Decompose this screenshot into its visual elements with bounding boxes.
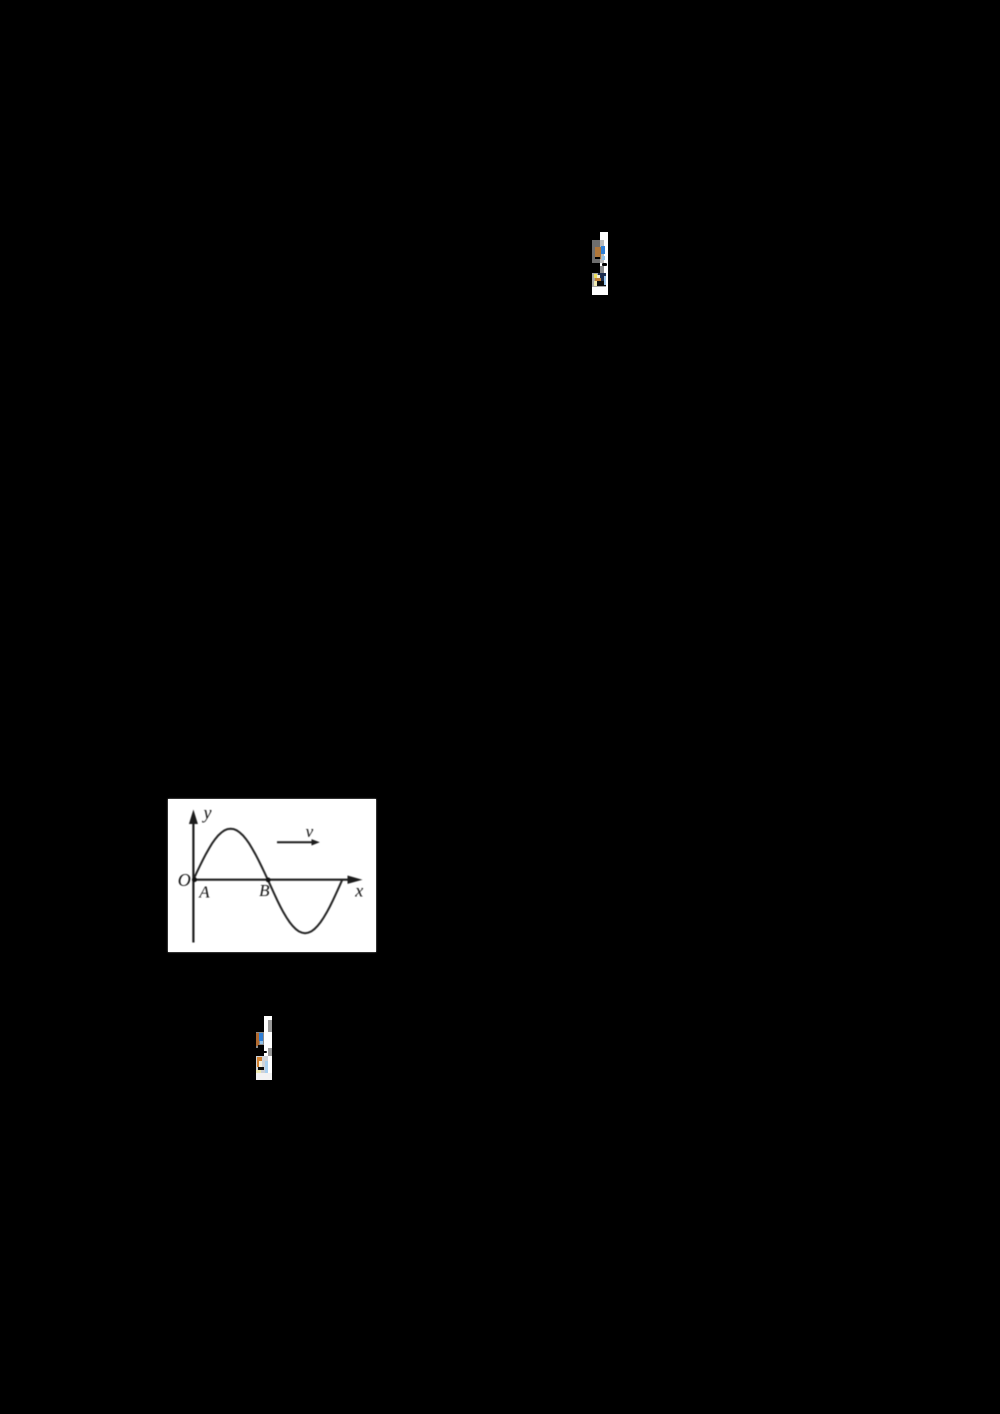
x-axis [192,879,350,881]
sine wave [193,829,342,934]
grey patch right upper [268,1020,272,1032]
velocity arrow v [277,841,314,843]
svg-text:O: O [178,870,191,890]
black mark under numerator [595,257,600,259]
fraction bar [602,263,607,266]
white column [600,232,608,295]
svg-text:A: A [198,883,210,902]
orange numerator stroke [595,247,601,259]
black mark under numerator [258,1045,263,1048]
dot at origin A [192,877,197,882]
svg-text:y: y [202,803,212,823]
orange numerator stroke [256,1033,260,1046]
y-axis arrowhead [189,810,198,825]
fraction fragment T/4 [256,1016,272,1080]
wave diagram white panel [168,799,376,952]
dot at point B [266,878,271,883]
fraction fragment T/2 [592,232,608,295]
grey numerator block [592,240,600,263]
y-axis [192,819,194,943]
svg-text:v: v [306,822,314,841]
x-axis arrowhead [348,876,363,884]
fraction bar [263,1051,267,1053]
grey gap below bar [600,266,604,273]
svg-text:B: B [259,881,270,900]
blue numerator stroke [259,1033,262,1041]
grey patch right mid [268,1048,272,1056]
white column [264,1016,272,1080]
digit 4 block [256,1056,269,1073]
svg-text:x: x [354,881,363,901]
digit 2 block [592,273,606,287]
blue numerator stroke [601,246,604,255]
white bottom [592,287,608,295]
whitish bottom [256,1073,272,1079]
numerator block [256,1032,264,1048]
